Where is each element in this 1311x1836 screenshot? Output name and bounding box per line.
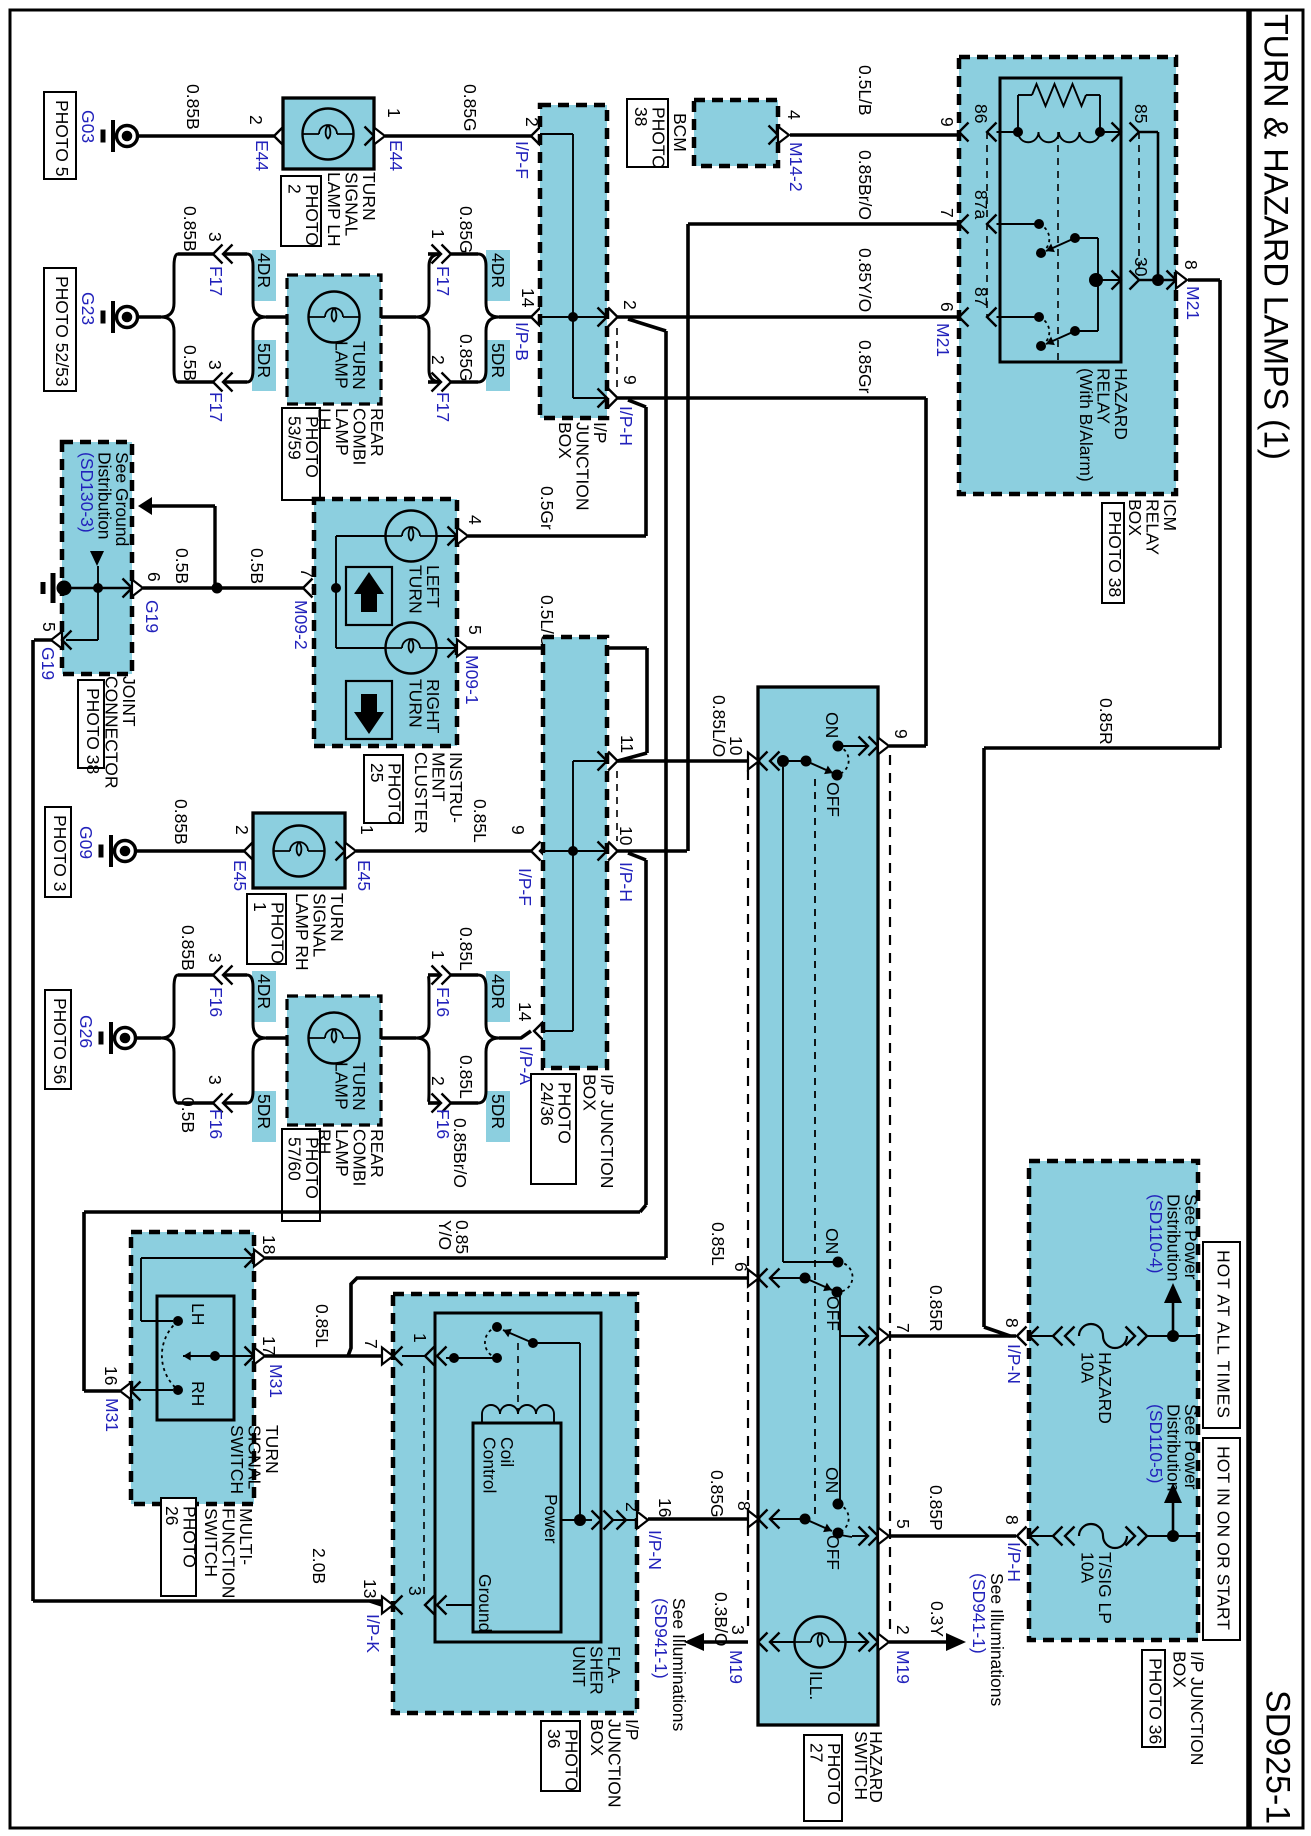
svg-text:ON: ON: [822, 712, 842, 738]
relay switch2 blade: [1036, 326, 1080, 351]
svg-text:PHOTO 56: PHOTO 56: [50, 998, 70, 1084]
wire 0.5L/O cluster pin5 to box2 pin11: [468, 648, 647, 761]
svg-text:16: 16: [655, 1498, 675, 1517]
svg-text:M09-1: M09-1: [462, 655, 482, 705]
label See Ground Distribution: [77, 452, 132, 546]
svg-text:3: 3: [205, 232, 225, 242]
tag 5DR right (G26): [486, 1091, 510, 1142]
connector name M19 (pin3): [726, 1650, 746, 1684]
pin number 10 (box2): [616, 826, 636, 846]
svg-text:(SD110-4): (SD110-4): [1146, 1194, 1166, 1273]
svg-text:PHOTO 36: PHOTO 36: [1146, 1658, 1166, 1744]
connector name M09-1: [462, 655, 482, 705]
connector hazard pin3 chevrons: [758, 1633, 780, 1652]
connector E44 pin2 chevrons: [274, 127, 293, 146]
connector name M14-2: [786, 142, 806, 192]
wire label 0.85R (top): [1096, 698, 1116, 745]
connector I/P-N pin16 chevron+triangle: [617, 1511, 649, 1530]
connector pin2 right of box1 chevrons: [598, 308, 618, 327]
hazard switch2 ON contact: [833, 1257, 844, 1268]
connector hazard pin7 chevron+triangle: [859, 1327, 890, 1346]
connector I/P-K pin13 triangle+chevron: [382, 1596, 403, 1615]
pin number 7 (relay): [937, 208, 957, 218]
tag 4DR left: [252, 250, 276, 301]
flasher switch blade: [503, 1329, 538, 1348]
tag 4DR left (G26): [252, 971, 276, 1022]
svg-text:PHOTO 3: PHOTO 3: [50, 815, 70, 892]
wire 0.85Y/O pin2 to hazard relay 87: [618, 315, 957, 319]
tag 4DR right: [486, 250, 510, 301]
svg-text:3: 3: [205, 360, 225, 370]
flasher switch to power wire: [533, 1343, 586, 1526]
label PHOTO 36 (box4): [1142, 1650, 1166, 1747]
svg-text:0.85L: 0.85L: [708, 1222, 728, 1266]
wire 30 to ICM edge: [1139, 274, 1176, 286]
connector name F16 lower right: [433, 1109, 453, 1139]
label PHOTO 52/53: [44, 268, 76, 391]
wire label 0.85Br/O (87a): [855, 150, 875, 220]
wire join to rear combi LH: [266, 315, 287, 319]
fuse tsig output wire: [1147, 1530, 1198, 1542]
label ICM RELAY BOX: [1125, 499, 1180, 555]
label Power: [541, 1494, 561, 1544]
svg-text:BCM: BCM: [670, 113, 690, 152]
pin number 17: [259, 1336, 279, 1355]
pin number 14 (I/P-A): [515, 1002, 535, 1022]
svg-text:BOX: BOX: [555, 422, 575, 459]
rear combi lamp LH box: [287, 275, 381, 404]
label PHOTO 1: [247, 894, 287, 964]
svg-text:2: 2: [622, 1502, 642, 1512]
joint connector internal wires: [71, 566, 217, 593]
svg-text:0.5B: 0.5B: [178, 1097, 198, 1133]
connector hazard pin5 chevron+triangle: [859, 1527, 890, 1546]
hazard switch1 OFF contact: [832, 770, 843, 781]
harness join right (G26): [478, 975, 499, 1103]
svg-text:17: 17: [259, 1336, 279, 1355]
label I/P JUNCTION BOX (box1): [555, 422, 610, 510]
connector F16 upper chevrons: [213, 966, 233, 985]
pin number 8 (M21): [1181, 260, 1201, 270]
svg-text:38: 38: [631, 107, 651, 126]
svg-text:0.85G: 0.85G: [707, 1470, 727, 1518]
svg-text:F16: F16: [206, 1109, 226, 1139]
pin number 1 (F17 upper right): [428, 229, 448, 239]
wire label 0.85G (5DR right): [456, 334, 476, 382]
connector name E44 right: [386, 140, 406, 171]
wire G19 pin5 to ground rail: [33, 640, 52, 1601]
label PHOTO 26: [161, 1498, 199, 1596]
svg-text:0.85G: 0.85G: [456, 334, 476, 382]
svg-text:0.85R: 0.85R: [1096, 698, 1116, 745]
connector name I/P-H (box1): [616, 406, 636, 446]
svg-text:F16: F16: [433, 987, 453, 1017]
flasher power wire: [561, 1519, 592, 1521]
svg-text:7: 7: [361, 1339, 381, 1349]
connector relay 30 chevrons: [1112, 271, 1140, 290]
svg-text:F17: F17: [433, 266, 453, 296]
svg-text:57/60: 57/60: [284, 1137, 304, 1181]
pin number 86: [971, 104, 991, 123]
wire label 0.85L/O: [709, 695, 729, 757]
junction box1 internal wiring: [540, 134, 607, 398]
svg-text:5: 5: [39, 622, 59, 632]
ground name G26: [76, 1015, 96, 1048]
wire label 0.5B left: [172, 548, 192, 584]
connector M21 pin8 chevron+triangle: [1167, 271, 1188, 290]
connector F17 upper-right chevrons: [432, 245, 452, 264]
connector M09-1 pin4 chevron+triangle: [448, 527, 469, 546]
label FLA-SHER UNIT: [569, 1646, 624, 1695]
svg-text:9: 9: [891, 729, 911, 739]
connector E45 pin1 chevron+triangle: [336, 842, 357, 861]
svg-text:0.5B: 0.5B: [247, 548, 267, 584]
connector name M21 (relay6): [933, 323, 953, 357]
TS switch LH contact: [141, 1316, 183, 1326]
svg-text:I/P-H: I/P-H: [616, 862, 636, 902]
connector hazard pin8 triangle+chevrons: [748, 1510, 780, 1529]
svg-text:0.5L/B: 0.5L/B: [855, 65, 875, 116]
label PHOTO 24/36: [531, 1074, 576, 1184]
svg-text:LAMP: LAMP: [331, 1062, 351, 1110]
svg-text:18: 18: [259, 1235, 279, 1254]
arrow to ground distribution: [138, 497, 152, 515]
svg-text:14: 14: [515, 1002, 535, 1022]
wire 0.85L/O pin11 to hazard pin10: [618, 759, 748, 763]
harness fork left (G26): [161, 975, 178, 1103]
wire label 0.85R (lower): [926, 1285, 946, 1332]
svg-text:6: 6: [937, 302, 957, 312]
hazard switch3 blade: [800, 1514, 833, 1533]
pin number 1 (flasher): [410, 1333, 430, 1343]
ground G26: [101, 1022, 136, 1054]
ground G09: [101, 835, 136, 867]
connector name F16 upper: [206, 987, 226, 1017]
label ILL.: [806, 1671, 826, 1700]
connector I/P-B pin14 chevrons: [531, 308, 550, 327]
svg-text:M31: M31: [266, 1364, 286, 1398]
pin number 9 (box1 right): [620, 375, 640, 385]
svg-text:0.85Br/O: 0.85Br/O: [450, 1118, 470, 1188]
pin number 9 (I/P-F): [508, 825, 528, 835]
pin number 8 (I/P-H fuse): [1002, 1515, 1022, 1525]
flasher control dashed line: [517, 1343, 519, 1411]
wire 0.85B G09 to lamp RH: [136, 849, 244, 853]
hazard switch1 travel arc: [837, 746, 849, 775]
label See Illuminations left: [651, 1598, 689, 1732]
svg-text:5DR: 5DR: [254, 343, 274, 378]
wire 0.3Y pin2 to illuminations: [889, 1640, 948, 1644]
wire 0.85P hazard pin5 to fuse pin8: [889, 1534, 1016, 1538]
wire 0.85G flasher to hazard pin8: [613, 1519, 748, 1520]
connector name I/P-H (box2): [616, 862, 636, 902]
svg-text:25: 25: [367, 763, 387, 782]
svg-text:Y/O: Y/O: [435, 1220, 455, 1250]
svg-text:1: 1: [428, 229, 448, 239]
label OFF (switch2): [823, 1296, 843, 1331]
hazard switch1 input: [777, 755, 812, 767]
svg-text:SD925-1: SD925-1: [1259, 1690, 1297, 1824]
pin number 10 (hazard side): [726, 736, 746, 756]
connector name G19 (pin5): [38, 647, 58, 680]
svg-text:I/P-K: I/P-K: [363, 1614, 383, 1653]
svg-text:1: 1: [410, 1333, 430, 1343]
connector M09-1 pin5 chevron+triangle: [448, 639, 469, 658]
svg-text:M14-2: M14-2: [786, 142, 806, 192]
pin number 2 (E44): [246, 115, 266, 125]
svg-text:2: 2: [428, 355, 448, 365]
svg-text:0.85B: 0.85B: [178, 925, 198, 971]
svg-text:87a: 87a: [971, 190, 991, 219]
pin number 11 (box2): [617, 735, 637, 753]
ground name G03: [78, 110, 98, 143]
svg-text:UNIT: UNIT: [569, 1646, 589, 1687]
wire label 0.85G (flasher): [707, 1470, 727, 1518]
connector name M21 (pin8): [1183, 286, 1203, 320]
svg-text:LH: LH: [188, 1303, 208, 1325]
svg-text:0.85Gr: 0.85Gr: [855, 340, 875, 394]
svg-text:2: 2: [893, 1625, 913, 1635]
svg-text:2.0B: 2.0B: [309, 1548, 329, 1584]
connector M31 pin18 chevron+triangle: [245, 1249, 266, 1268]
svg-text:I/P-B: I/P-B: [512, 322, 532, 361]
connector G19 pin6 chevron+triangle: [123, 579, 144, 598]
label HAZARD RELAY (With B/Alarm): [1076, 368, 1131, 482]
flasher control unit box: [473, 1423, 561, 1632]
wire label 0.85G: [460, 84, 480, 132]
label PHOTO 38 (ICM): [1102, 503, 1125, 603]
label TURN SIGNAL LAMP LH: [324, 172, 379, 247]
pin number 5 (G19): [39, 622, 59, 632]
svg-text:OFF: OFF: [823, 1535, 843, 1570]
label T/SIG LP 10A: [1077, 1552, 1115, 1624]
title TURN & HAZARD LAMPS (1): [1257, 14, 1295, 460]
pin number 6 (G19): [144, 572, 164, 582]
pin number 4 (cluster): [465, 515, 485, 525]
svg-text:10A: 10A: [1077, 1552, 1097, 1583]
label TURN LAMP (RH): [331, 1062, 369, 1111]
label PHOTO 25: [364, 755, 404, 825]
connector F17 upper chevrons: [213, 245, 233, 264]
wire 0.5B G19 to M09-2: [143, 586, 303, 590]
svg-text:RH: RH: [314, 1129, 334, 1154]
svg-text:3: 3: [205, 953, 225, 963]
label ON (switch1): [822, 712, 842, 738]
connector name I/P-A: [516, 1046, 536, 1085]
hazard switch control link dashed: [814, 779, 816, 1515]
hazard drop wire switch1 to switch2: [783, 767, 838, 1262]
wire label 0.5Gr: [537, 486, 557, 530]
relay 87 contact wire: [997, 312, 1045, 322]
svg-text:Ground: Ground: [475, 1574, 495, 1632]
svg-text:24/36: 24/36: [537, 1082, 557, 1126]
wire 5DR branch left: [178, 380, 247, 384]
wire label 0.85L (pin17): [312, 1304, 332, 1348]
arrow tsig fuse hot feed: [1164, 1483, 1182, 1503]
svg-text:See Illuminations: See Illuminations: [987, 1573, 1007, 1707]
label PHOTO 56: [45, 990, 71, 1089]
rear combi lamp RH box: [287, 996, 381, 1125]
ground name G09: [76, 826, 96, 859]
svg-text:36: 36: [544, 1729, 564, 1748]
svg-text:5DR: 5DR: [488, 1094, 508, 1129]
label I/P JUNCTION BOX (box4): [1169, 1651, 1207, 1765]
svg-text:0.85L: 0.85L: [456, 927, 476, 971]
harness fork right (G26): [416, 975, 429, 1103]
connector relay pin6/87 chevrons: [959, 308, 997, 327]
svg-text:BOX: BOX: [1169, 1651, 1189, 1688]
label Coil Control: [479, 1437, 517, 1493]
wire 4DR branch right (G26): [428, 973, 478, 977]
label PHOTO 38 (box1): [627, 99, 668, 169]
wire rear combi LH to fork: [381, 315, 416, 319]
label PHOTO 5: [44, 92, 76, 179]
wire branch pin9 to cluster pin4 (0.5Gr): [468, 400, 646, 536]
svg-text:0.5Gr: 0.5Gr: [537, 486, 557, 530]
fuse HAZARD 10A: [1079, 1324, 1127, 1348]
svg-text:I/P-H: I/P-H: [616, 406, 636, 446]
svg-text:26: 26: [162, 1506, 182, 1525]
wire label 0.85 Y/O (pin18): [435, 1220, 472, 1254]
svg-text:53/59: 53/59: [284, 416, 304, 460]
connector F16 upper-right chevrons: [432, 966, 452, 985]
connector flasher pin3 chevrons: [425, 1596, 447, 1615]
pin number 1 (E44): [384, 108, 404, 118]
svg-text:LAMP: LAMP: [331, 341, 351, 389]
svg-text:(With B/Alarm): (With B/Alarm): [1076, 368, 1096, 482]
tag 4DR right (G26): [486, 971, 510, 1022]
flasher coil: [482, 1405, 554, 1423]
svg-text:9: 9: [508, 825, 528, 835]
connector E44 pin1 chevron+triangle: [365, 127, 386, 146]
wire 0.85Br/O relay87a run: [688, 224, 957, 851]
label See Power Distribution (SD110-4): [1146, 1194, 1201, 1282]
connector name I/P-H (fuse): [1004, 1542, 1024, 1582]
connector name I/P-F: [512, 141, 532, 179]
connector name M31 (pin17): [266, 1364, 286, 1398]
pin number 2 (hazard): [893, 1625, 913, 1635]
hazard ILL lamp: [770, 1617, 868, 1668]
svg-text:TURN & HAZARD LAMPS (1): TURN & HAZARD LAMPS (1): [1257, 14, 1295, 460]
svg-text:E44: E44: [252, 140, 272, 171]
flasher ground wire: [446, 1604, 473, 1606]
wire label 0.5B right: [247, 548, 267, 584]
svg-text:6: 6: [731, 1262, 751, 1272]
relay switch1 pivot wire: [1075, 237, 1098, 239]
label PHOTO 3: [45, 807, 71, 897]
relay coil wire 86 side: [997, 127, 1024, 137]
pin number 18: [259, 1235, 279, 1254]
wire 0.85R relay to right rail: [984, 280, 1220, 1336]
svg-text:Control: Control: [479, 1437, 499, 1493]
wire 0.85B G03 to lamp LH: [138, 134, 274, 138]
svg-text:0.85L: 0.85L: [470, 799, 490, 843]
svg-text:I/P-H: I/P-H: [1004, 1542, 1024, 1582]
hazard switch3 ON contact: [833, 1499, 844, 1510]
connector M31 pin16 triangle+chevron: [120, 1382, 141, 1401]
hazard switch1 ON contact: [833, 741, 869, 752]
label RIGHT TURN: [405, 679, 443, 734]
wire label 0.85B (G09): [171, 799, 191, 845]
svg-text:G19: G19: [38, 647, 58, 680]
wire label 0.5B (5DR): [180, 345, 200, 381]
label PHOTO 53/59: [282, 408, 322, 500]
svg-text:LH: LH: [314, 408, 334, 430]
wire 0.85L pin17 to flasher: [265, 1354, 382, 1358]
connector hazard pin10 triangle+chevrons: [748, 752, 780, 771]
svg-text:0.3B/O: 0.3B/O: [711, 1592, 731, 1646]
svg-text:HOT AT ALL TIMES: HOT AT ALL TIMES: [1214, 1250, 1234, 1418]
svg-text:M19: M19: [726, 1650, 746, 1684]
svg-text:2: 2: [620, 300, 640, 310]
connector hazard pin9 chevron+triangle: [859, 737, 890, 756]
wire label 0.85Br/O (lower): [450, 1118, 470, 1188]
wire 0.3B/O pin3 to illuminations: [702, 1640, 748, 1644]
connector name I/P-F (box2): [515, 868, 535, 906]
fuse tsig left chevrons: [1053, 1527, 1075, 1546]
svg-text:0.85L: 0.85L: [456, 1055, 476, 1099]
wire label 0.85L (E45): [470, 799, 490, 843]
connector F16 lower chevrons: [213, 1094, 233, 1113]
turn signal switch inner box: [157, 1296, 234, 1420]
fuse tsig right chevrons: [1126, 1527, 1148, 1546]
svg-text:10: 10: [616, 826, 636, 846]
relay resistor legs: [1018, 95, 1100, 132]
connector M14-2 pin4 chevron+triangle: [769, 126, 790, 145]
label PHOTO 57/60: [282, 1129, 322, 1221]
right turn lamp (cluster): [386, 623, 458, 674]
svg-text:8: 8: [734, 1501, 754, 1511]
relay coil: [1018, 132, 1100, 142]
wire label 0.85B (4DR): [180, 206, 200, 252]
wire 0.85L branch to hazard pin6: [348, 1278, 748, 1356]
svg-text:1: 1: [428, 950, 448, 960]
svg-text:4: 4: [784, 110, 804, 120]
svg-text:F17: F17: [206, 392, 226, 422]
turn signal lamp LH box: [283, 98, 374, 169]
pin number 16 (I/P-N): [655, 1498, 675, 1517]
label OFF (switch3): [823, 1535, 843, 1570]
connector I/P-A pin14 chevrons: [534, 1022, 553, 1041]
connector name F17 upper right: [433, 266, 453, 296]
dashed link I/P-H pins 2-9: [616, 328, 618, 388]
svg-text:PHOTO 52/53: PHOTO 52/53: [52, 276, 72, 387]
wire 0.85L lamp RH to I/P-F9: [356, 849, 531, 853]
svg-text:BOX: BOX: [579, 1074, 599, 1111]
connector name I/P-N (fuse): [1004, 1344, 1024, 1384]
svg-text:F17: F17: [433, 392, 453, 422]
svg-text:4DR: 4DR: [488, 253, 508, 288]
harness join left (G26): [247, 975, 266, 1103]
label HAZARD 10A: [1077, 1352, 1115, 1424]
flasher switch moving contact: [492, 1322, 502, 1332]
svg-text:0.3Y: 0.3Y: [927, 1601, 947, 1637]
label INSTRU-MENT CLUSTER: [411, 752, 466, 834]
svg-text:M31: M31: [102, 1398, 122, 1432]
arrow to illuminations left: [684, 1633, 704, 1651]
hazard connector dashed left: [747, 770, 749, 1634]
relay resistor: [1032, 84, 1086, 106]
svg-text:10A: 10A: [1077, 1352, 1097, 1383]
connector name F16 lower: [206, 1109, 226, 1139]
svg-text:4DR: 4DR: [254, 253, 274, 288]
connector relay pin7/87a chevrons: [959, 215, 997, 234]
left turn lamp (cluster): [386, 511, 458, 562]
svg-text:I/P-N: I/P-N: [645, 1530, 665, 1570]
svg-text:11: 11: [617, 735, 637, 753]
I/P junction box 2: [543, 637, 607, 1068]
wire label 0.85Y/O: [855, 248, 875, 312]
